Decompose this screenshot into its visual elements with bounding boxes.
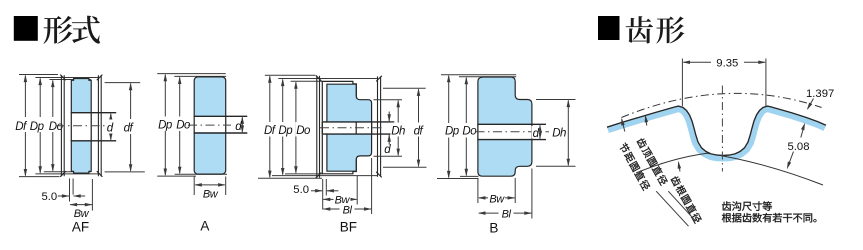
svg-text:A: A: [200, 218, 209, 233]
pulley B: dimension Bw: [478, 178, 515, 206]
pulley AF: dimension Df: [15, 75, 29, 177]
pulley AF: dimension Bw: [70, 179, 93, 220]
pulley BF: centerline: [320, 127, 383, 129]
pulley AF: dimension Dp: [29, 78, 45, 174]
tooth profile: note text: [722, 201, 817, 222]
pulley BF: bore band: [322, 122, 394, 134]
pulley A: dimension Bw: [194, 177, 226, 201]
pulley B: dimension Do: [462, 77, 478, 177]
svg-text:Bw: Bw: [489, 194, 505, 206]
svg-text:Dh: Dh: [552, 128, 566, 140]
pulley A: dimension Do: [176, 76, 191, 174]
pulley AF: dimension Do: [48, 80, 64, 172]
pulley AF: dimension df: [105, 83, 145, 172]
pulley B: dimension Dp: [444, 75, 460, 179]
tooth profile: dimension 9.35: [682, 56, 766, 106]
svg-text:Dp: Dp: [30, 121, 45, 133]
svg-text:BF: BF: [340, 220, 357, 235]
pulley B: body with hub: [478, 77, 532, 176]
svg-text:Bl: Bl: [343, 204, 353, 216]
svg-text:5.0: 5.0: [41, 191, 57, 203]
tooth profile: center line: [721, 86, 723, 172]
svg-text:B: B: [489, 221, 498, 236]
pulley BF: dimension Do: [294, 81, 311, 174]
pulley A: dimension extension lines: [157, 74, 227, 177]
pulley AF: bore band: [71, 113, 117, 141]
svg-text:Dp: Dp: [158, 119, 173, 131]
pulley A: dimension d: [235, 116, 244, 133]
pulley B: bore band: [477, 124, 546, 139]
tooth profile: label root circle diameter (rotated): [670, 175, 703, 224]
tooth profile: root circle arc: [636, 153, 823, 185]
pulley BF: dimension df: [383, 88, 427, 167]
tooth profile: label tip circle diameter (rotated): [636, 137, 669, 186]
svg-text:5.08: 5.08: [788, 141, 810, 153]
pulley BF: dimension Bw: [323, 176, 358, 207]
pulley B: dimension Bl: [478, 169, 532, 221]
tooth profile: belt band (blue): [607, 106, 826, 161]
tooth profile: pitch circle arc (dash-dot): [622, 93, 822, 117]
svg-text:9.35: 9.35: [716, 58, 738, 70]
pulley AF: left flange: [60, 75, 66, 177]
tooth profile: leader arrow root circle: [676, 161, 681, 172]
tooth profile: label pitch circle diameter (rotated): [618, 142, 651, 191]
title: tooth profile section: [598, 16, 684, 44]
title: form section: [14, 16, 100, 44]
pulley AF: centerline: [56, 125, 114, 127]
pulley A: centerline: [188, 124, 231, 126]
svg-text:AF: AF: [72, 220, 89, 235]
pulley BF: left flange: [316, 75, 322, 178]
svg-text:Dp: Dp: [278, 125, 293, 137]
tooth profile: leader lines: [656, 191, 696, 226]
pulley BF: dimension extension lines: [258, 75, 377, 178]
svg-text:Bl: Bl: [502, 208, 512, 220]
svg-text:Dp: Dp: [445, 126, 460, 138]
pulley AF: dimension d: [106, 113, 114, 141]
svg-text:1.397: 1.397: [806, 88, 834, 100]
svg-text:Bw: Bw: [203, 189, 219, 201]
pulley BF: right flange: [376, 76, 382, 178]
pulley B: dimension d: [532, 124, 542, 140]
pulley AF: dimension 5.0: [41, 179, 85, 204]
pulley B: dimension Dh: [536, 100, 576, 167]
tooth profile: tooth surface outline: [607, 106, 826, 155]
tooth profile: leader arrow pitch circle: [620, 117, 625, 131]
pulley BF: dimension d: [384, 112, 391, 156]
pulley A: bore band: [194, 116, 248, 133]
pulley AF: right flange: [97, 75, 103, 177]
tooth profile: dimension 5.08: [785, 122, 809, 170]
pulley AF: dimension extension lines: [19, 75, 99, 177]
pulley BF: dimension Dh: [374, 100, 406, 157]
pulley A: dimension Dp: [158, 74, 173, 177]
svg-text:Do: Do: [296, 125, 311, 137]
svg-text:Do: Do: [462, 126, 477, 138]
pulley AF: body (toothed): [71, 79, 91, 174]
pulley BF: body with hub: [322, 81, 371, 173]
tooth profile: dimension 1.397: [805, 88, 834, 111]
pulley BF: dimension Bl: [323, 158, 372, 216]
svg-text:Bw: Bw: [74, 208, 90, 220]
pulley BF: dimension 5.0: [293, 179, 338, 210]
pulley A: body: [194, 77, 226, 174]
svg-text:5.0: 5.0: [293, 184, 309, 196]
tooth profile: leader arrow tip circle: [643, 115, 648, 126]
pulley B: dimension extension lines: [437, 75, 516, 179]
pulley B: centerline: [476, 131, 550, 133]
pulley BF: dimension Df: [263, 75, 277, 178]
pulley BF: dimension Dp: [278, 79, 294, 176]
svg-text:Dh: Dh: [391, 126, 405, 138]
